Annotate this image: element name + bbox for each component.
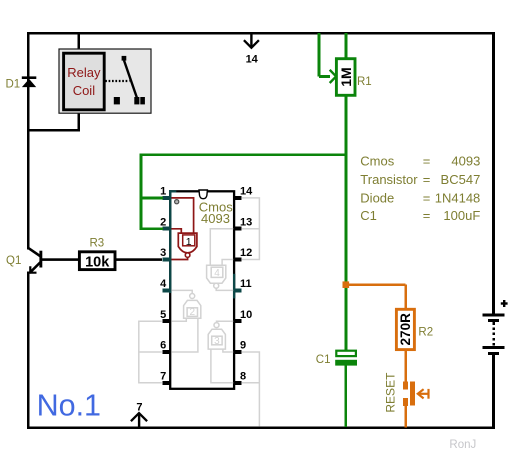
wire left rail upper (to Q1 collector) (27, 32, 30, 250)
svg-text:=: = (423, 208, 431, 223)
pin 14 stub (234, 196, 242, 200)
svg-text:3: 3 (214, 336, 220, 347)
pin 5 stub (163, 319, 171, 323)
svg-text:D1: D1 (6, 78, 21, 90)
wire bottom rail (27, 426, 495, 429)
wire node RC to R2 branch (346, 283, 406, 286)
svg-text:9: 9 (240, 340, 246, 352)
battery cell 1 positive plate (483, 313, 505, 316)
svg-text:Q1: Q1 (6, 255, 21, 267)
wire node RC to gate input branch (141, 153, 346, 156)
svg-text:4093: 4093 (201, 211, 230, 226)
svg-text:7: 7 (136, 402, 142, 414)
parts list text (360, 153, 480, 223)
gate U1A (red) input wire from pin 1 (171, 198, 197, 260)
wire R1 bottom to C1 top (node RC) (345, 95, 348, 350)
wire R3 to pin 3 (115, 258, 162, 261)
resistor R3 (79, 237, 115, 270)
svg-text:5: 5 (160, 309, 166, 321)
wire gate input branch vertical (140, 154, 143, 230)
svg-text:1M: 1M (338, 67, 354, 86)
svg-text:BC547: BC547 (441, 172, 481, 187)
wire left rail lower (from Q1 emitter) (27, 272, 30, 430)
svg-text:=: = (423, 153, 431, 168)
svg-text:R3: R3 (89, 237, 104, 249)
transistor Q1 (6, 248, 42, 273)
wire relay feed from top rail (77, 33, 80, 54)
wire into R1 arrow (319, 75, 330, 78)
push button actuator arrow (418, 389, 429, 399)
svg-text:7: 7 (160, 370, 166, 382)
svg-text:1: 1 (160, 186, 166, 198)
battery cell 2 positive plate (483, 346, 505, 349)
wire top rail to R1 arrow drop (318, 33, 321, 76)
svg-text:2: 2 (160, 216, 166, 228)
pin 10 stub (234, 319, 242, 323)
svg-text:2: 2 (190, 307, 196, 318)
wire right rail upper (to battery) (492, 32, 495, 314)
svg-text:Cmos: Cmos (360, 153, 394, 168)
ghost net pins 9-8 tie to bottom (242, 352, 260, 426)
battery plus sign (501, 302, 508, 304)
svg-text:R1: R1 (357, 76, 372, 88)
svg-text:14: 14 (246, 54, 259, 66)
wire top rail (27, 32, 495, 35)
resistor R1 (336, 59, 371, 96)
gate U1A output wire to pin 3 (171, 257, 187, 259)
green arrow into R1 (330, 70, 336, 83)
battery cell 1 negative plate (488, 319, 499, 322)
ghost gate U1D (207, 229, 234, 291)
ghost net pins 5-6-7 tie (139, 321, 162, 383)
wire branch to pin 1 (141, 197, 163, 200)
svg-text:4: 4 (160, 278, 167, 290)
pin 4 stub (163, 288, 171, 292)
pin 1 stub (163, 196, 171, 200)
gate U1A input wire from pin 2 (171, 229, 181, 233)
gate U1A bubble (185, 253, 190, 258)
relay switch dotted actuator link (105, 80, 129, 82)
svg-text:R2: R2 (418, 327, 433, 339)
svg-text:10: 10 (240, 309, 252, 321)
svg-text:C1: C1 (316, 354, 331, 366)
relay switch contact NO pair (134, 97, 139, 104)
relay module box (59, 49, 151, 113)
svg-text:270R: 270R (398, 313, 413, 346)
pin 14 supply arrow (244, 34, 259, 66)
battery B1 (483, 313, 505, 355)
pin 7 ground arrow (131, 402, 147, 427)
wire Q1 base to R3 (42, 258, 79, 261)
ghost net pins 14-13-12 tie (242, 198, 260, 260)
push button RESET contacts (403, 382, 415, 406)
resistor R2 (396, 309, 433, 349)
ghost gate U1B (171, 290, 200, 352)
svg-text:12: 12 (240, 247, 252, 259)
gate U1A body (178, 233, 197, 253)
pin 3 stub (163, 258, 171, 262)
pin 6 stub (163, 350, 171, 354)
svg-text:14: 14 (240, 186, 253, 198)
svg-text:RonJ: RonJ (449, 439, 476, 451)
ghost gate U1C (208, 321, 233, 383)
wire top rail to R1 top (345, 33, 348, 59)
pin 2 stub (163, 227, 171, 231)
svg-text:11: 11 (240, 278, 252, 290)
svg-text:100uF: 100uF (443, 208, 480, 223)
wire R2 bottom to reset switch (404, 350, 407, 382)
pin 8 stub (234, 381, 242, 385)
svg-text:10k: 10k (85, 254, 110, 270)
battery cell 2 negative plate (488, 352, 499, 355)
svg-text:1N4148: 1N4148 (435, 190, 481, 205)
orange net junction dot (343, 281, 350, 288)
wire branch to pin 2 (141, 227, 163, 230)
wire relay bottom to left rail (27, 129, 80, 132)
wire relay coil bottom drop (77, 109, 80, 131)
svg-text:=: = (423, 172, 431, 187)
svg-text:8: 8 (240, 370, 246, 382)
pin 11 stub (234, 288, 242, 292)
svg-text:=: = (423, 190, 431, 205)
battery dashed middle cells (492, 322, 494, 346)
relay switch contact NC (114, 97, 120, 104)
capacitor C1 (316, 351, 357, 427)
svg-text:RESET: RESET (384, 372, 398, 413)
relay coil box (64, 53, 105, 110)
svg-text:4: 4 (214, 268, 220, 279)
wire right rail lower (from battery) (492, 355, 495, 429)
svg-text:13: 13 (240, 216, 252, 228)
svg-text:1: 1 (186, 236, 192, 248)
wire branch down to R2 top (404, 285, 407, 310)
relay switch armature (124, 60, 137, 97)
pin 7 stub (163, 381, 171, 385)
svg-text:6: 6 (160, 340, 166, 352)
relay switch contact top (122, 56, 127, 61)
svg-text:C1: C1 (360, 208, 377, 223)
pin 9 stub (234, 350, 242, 354)
IC U1 body (169, 190, 235, 389)
svg-text:Transistor: Transistor (360, 172, 418, 187)
pin 12 stub (234, 258, 242, 262)
svg-text:4093: 4093 (451, 153, 480, 168)
pin 13 stub (234, 227, 242, 231)
svg-text:No.1: No.1 (37, 388, 101, 422)
svg-text:3: 3 (160, 247, 166, 259)
svg-text:Relay: Relay (67, 65, 101, 80)
svg-text:Coil: Coil (73, 83, 96, 98)
svg-text:Diode: Diode (360, 190, 394, 205)
wire reset switch to bottom rail (404, 406, 407, 427)
diode D1 (6, 76, 37, 90)
